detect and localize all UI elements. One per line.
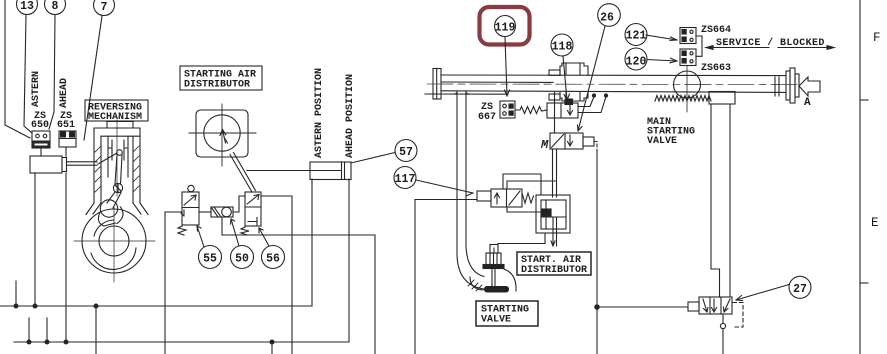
rotor arrow	[220, 130, 228, 144]
valve 27 exhaust	[720, 314, 725, 354]
starting valve body	[470, 253, 516, 291]
valve 56 spring	[241, 227, 249, 235]
wire ZS650 down	[40, 148, 42, 156]
cam outer circle	[82, 209, 146, 273]
wire valve55 drain down	[164, 212, 166, 354]
wire pilot to distributor pipes	[553, 149, 557, 197]
svg-text:26: 26	[600, 12, 614, 25]
reversing actuator cylinder	[30, 156, 67, 173]
svg-text:VALVE: VALVE	[647, 136, 677, 147]
lever linkage	[107, 155, 122, 208]
ball valve stem line	[686, 66, 688, 112]
cam centerlines	[74, 207, 155, 282]
leader 56	[259, 228, 269, 246]
junction dot	[595, 305, 599, 309]
svg-text:ZS663: ZS663	[701, 63, 731, 74]
leader 57	[351, 153, 395, 164]
limit switch ZS663	[680, 49, 696, 66]
node 57	[395, 140, 417, 162]
svg-text:57: 57	[399, 146, 413, 159]
wire valve55 left port	[165, 211, 182, 213]
valve 56	[245, 192, 261, 226]
main pipe flange left	[433, 69, 441, 100]
reversing mechanism body	[86, 122, 148, 215]
M valve (26)	[550, 133, 594, 149]
cam eccentric arc	[91, 248, 136, 269]
leader 120	[647, 58, 677, 63]
border line right	[859, 0, 861, 354]
wire stub left	[14, 281, 18, 308]
pipe lower ledge	[425, 93, 505, 95]
wire stub b	[45, 318, 49, 344]
svg-text:56: 56	[266, 253, 280, 266]
wire from 7 to reversing mechanism	[84, 16, 102, 140]
leader 121	[646, 35, 677, 41]
wire valve117 bottom to block	[507, 207, 545, 212]
wire left edge to ZS650	[5, 0, 30, 138]
node 8	[45, 0, 66, 15]
pilot valve right ports	[578, 94, 608, 113]
svg-text:121: 121	[626, 30, 647, 43]
wire actuator right leg	[64, 173, 68, 344]
branch pipe down (to starting valve)	[454, 92, 485, 290]
svg-text:118: 118	[552, 41, 573, 54]
svg-text:119: 119	[495, 22, 516, 35]
valve 27 port box	[688, 302, 699, 311]
node 26	[598, 4, 621, 27]
svg-text:120: 120	[626, 56, 647, 69]
valve 27 dashed bracket	[733, 303, 743, 328]
wire valve117 top loop b	[503, 174, 541, 195]
node 120	[625, 48, 647, 70]
limit switch ZS651	[59, 131, 76, 147]
pipe block to starting valve	[494, 233, 545, 253]
border tick 2	[860, 282, 868, 284]
node 121	[625, 24, 647, 46]
svg-text:7: 7	[101, 1, 108, 14]
position indicator cylinder 57	[310, 162, 351, 180]
cam roller	[100, 200, 117, 217]
downpipe to valve 27	[711, 104, 730, 297]
wire from 13 to ZS650	[24, 15, 32, 133]
wire junction to valve 27	[597, 306, 688, 308]
rotor crosshair	[189, 104, 256, 166]
svg-text:27: 27	[793, 283, 807, 296]
limit switch ZS650	[32, 131, 50, 148]
cam inner circle	[99, 226, 129, 256]
junction dot	[270, 340, 274, 344]
wire to position indicator	[247, 170, 341, 172]
svg-text:M: M	[540, 138, 549, 152]
distributor stems	[551, 217, 557, 246]
highlight box around 119	[480, 7, 530, 45]
actuator crank	[98, 153, 117, 164]
wire down	[271, 342, 273, 354]
leader 50	[231, 219, 240, 246]
shutoff block on pipe	[549, 63, 588, 105]
svg-text:651: 651	[57, 120, 75, 131]
leader 55	[197, 226, 204, 247]
wire shuttle to valve56	[233, 196, 245, 212]
starting valve fitting	[490, 245, 498, 254]
svg-text:VALVE: VALVE	[481, 315, 511, 326]
junction dot	[94, 304, 98, 308]
leader 119	[505, 37, 510, 96]
label MAIN STARTING VALVE	[647, 117, 695, 147]
node 118	[551, 34, 573, 56]
pipe centerline	[427, 83, 799, 86]
valve 55 pilot dome	[188, 185, 194, 191]
svg-text:650: 650	[31, 120, 49, 131]
label box STARTING AIR DISTRIBUTOR (left)	[180, 66, 262, 91]
downpipe fitting	[709, 92, 735, 105]
wire junction down	[596, 307, 598, 354]
rack	[655, 96, 711, 102]
lever pivot	[113, 183, 122, 192]
lever pin	[117, 150, 123, 156]
node 13	[17, 0, 38, 15]
bus wire y342	[14, 341, 349, 343]
wire ZS651 down	[65, 147, 67, 156]
wire M valve to junction (dashed then solid)	[594, 142, 597, 151]
actuator rod	[67, 162, 98, 165]
arrow right	[827, 46, 834, 50]
start air distributor block	[536, 195, 570, 233]
mechanism centerline	[116, 120, 118, 196]
node 56	[262, 246, 285, 269]
starting valve head	[485, 287, 509, 293]
underline	[707, 47, 833, 49]
wire valve55 to shuttle 50	[199, 211, 211, 213]
distributor rotor housing	[196, 110, 248, 157]
svg-text:117: 117	[395, 173, 416, 186]
node 117	[394, 167, 416, 189]
wire indicator right down	[348, 179, 350, 342]
svg-text:8: 8	[52, 0, 59, 13]
node 7	[94, 0, 115, 16]
svg-text:DISTRIBUTOR: DISTRIBUTOR	[184, 80, 250, 91]
svg-text:F: F	[873, 31, 881, 45]
wire from 8 to ZS651	[49, 15, 55, 129]
bus wire y306	[0, 305, 312, 307]
leader 26	[578, 26, 606, 131]
pilot valve (118)	[547, 103, 578, 118]
wire indicator left down	[311, 179, 313, 306]
node 27	[789, 276, 811, 298]
svg-text:E: E	[871, 216, 879, 230]
node 55	[199, 246, 222, 269]
valve 117 spring	[522, 193, 534, 203]
pipe coupling right	[775, 77, 779, 96]
leader 118	[563, 56, 570, 100]
main pipe	[441, 75, 786, 92]
svg-text:A: A	[804, 97, 811, 109]
svg-text:13: 13	[20, 0, 34, 13]
bracket between switches	[696, 36, 702, 56]
svg-text:50: 50	[235, 253, 249, 266]
wire valve56 right loop	[261, 196, 292, 354]
wire actuator left leg	[33, 173, 37, 308]
shuttle valve 50	[211, 207, 233, 217]
label box REVERSING MECHANISM	[85, 100, 148, 123]
label box STARTING VALVE	[476, 301, 538, 326]
limit switch ZS667	[500, 101, 515, 118]
node 119	[495, 16, 516, 37]
wire right box edge	[414, 200, 416, 354]
svg-text:55: 55	[203, 253, 217, 266]
pipe rotor to valve56 (double)	[230, 153, 256, 193]
arrow left	[706, 46, 713, 50]
valve 27	[699, 297, 732, 314]
wire stub a	[27, 318, 31, 344]
ball valve circle	[674, 71, 701, 98]
claw	[98, 207, 123, 226]
svg-text:667: 667	[478, 112, 496, 123]
distributor rotor circle	[204, 115, 240, 151]
node 50	[231, 246, 254, 269]
valve 55 spring	[178, 226, 186, 235]
leader 27	[736, 285, 789, 301]
svg-text:AHEAD: AHEAD	[59, 78, 70, 108]
elbow hatch	[468, 280, 482, 291]
valve 55	[181, 192, 199, 225]
pipe end flange	[786, 68, 799, 103]
label box START. AIR DISTRIBUTOR	[517, 252, 591, 276]
control valve (117)	[477, 189, 522, 207]
svg-text:ASTERN POSITION: ASTERN POSITION	[314, 68, 325, 158]
pipe tap vertical	[554, 93, 556, 134]
svg-text:ASTERN: ASTERN	[31, 71, 42, 107]
limit switch ZS664	[680, 28, 696, 44]
wire valve117 left port	[415, 199, 477, 201]
svg-text:DISTRIBUTOR: DISTRIBUTOR	[521, 265, 587, 276]
wire shuttle bottom	[222, 217, 375, 354]
leader 117	[416, 180, 473, 196]
arrow A	[799, 77, 820, 96]
wire valve117 top loop a	[507, 181, 556, 189]
wire down from junction	[95, 306, 97, 354]
svg-text:AHEAD POSITION: AHEAD POSITION	[345, 74, 356, 158]
svg-text:ZS664: ZS664	[701, 25, 731, 36]
spring ZS667	[515, 107, 547, 114]
border tick 1	[860, 99, 868, 101]
